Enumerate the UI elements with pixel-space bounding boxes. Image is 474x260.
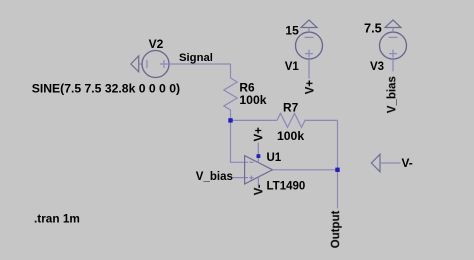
wire: node down to inverting input xyxy=(231,120,249,162)
svg-text:V2: V2 xyxy=(149,37,164,51)
svg-text:V+: V+ xyxy=(305,80,317,95)
svg-text:V3: V3 xyxy=(370,61,384,73)
svg-text:LT1490: LT1490 xyxy=(267,180,306,192)
wire: R7 right down to output node xyxy=(337,120,339,169)
ground flag (rotated up) above V3 xyxy=(385,20,401,32)
svg-text:R7: R7 xyxy=(283,100,299,114)
svg-text:V1: V1 xyxy=(285,61,300,73)
wire: V_bias to non-inverting input xyxy=(232,177,249,179)
ground flag (rotated left) for V- net xyxy=(371,154,400,172)
wire: V1 bottom to V+ flag xyxy=(308,59,310,78)
svg-text:.tran 1m: .tran 1m xyxy=(34,212,80,226)
svg-text:100k: 100k xyxy=(239,93,266,107)
junction node at output xyxy=(335,168,339,172)
svg-text:V-: V- xyxy=(253,184,265,195)
junction node at R6/R7/inverting input xyxy=(228,118,232,122)
resistor R7 xyxy=(277,113,338,127)
svg-text:15: 15 xyxy=(285,23,299,37)
op-amp V- supply pin xyxy=(257,177,259,185)
svg-text:U1: U1 xyxy=(267,152,282,164)
svg-text:V+: V+ xyxy=(253,127,265,142)
voltage source V1 xyxy=(296,32,323,59)
wire: node to R7 xyxy=(231,119,278,121)
wire: V3 bottom to V_bias flag xyxy=(392,59,394,71)
svg-text:SINE(7.5 7.5 32.8k 0 0 0 0): SINE(7.5 7.5 32.8k 0 0 0 0) xyxy=(32,82,180,96)
wire: op-amp output to node xyxy=(273,169,338,171)
svg-text:Output: Output xyxy=(330,210,342,248)
wire: corner down to R6 xyxy=(230,64,232,78)
svg-text:V_bias: V_bias xyxy=(386,76,398,113)
svg-text:7.5: 7.5 xyxy=(364,20,382,35)
voltage source V3 xyxy=(380,32,407,59)
ground flag (rotated up) above V1 xyxy=(301,20,317,32)
svg-text:V_bias: V_bias xyxy=(196,171,233,183)
svg-text:Signal: Signal xyxy=(179,52,213,64)
pin square at op-amp V+ xyxy=(257,154,261,158)
svg-text:V-: V- xyxy=(402,156,413,170)
svg-text:100k: 100k xyxy=(277,129,304,143)
voltage source V2 xyxy=(142,51,169,78)
resistor R6 xyxy=(224,78,237,120)
wire Signal: V2 to corner xyxy=(169,63,231,65)
wire: output node down to Output flag xyxy=(337,170,339,209)
ground flag (rotated left) at V2 negative terminal xyxy=(131,56,142,72)
op-amp U1 triangle xyxy=(245,156,273,184)
op-amp V+ supply pin xyxy=(257,143,259,163)
